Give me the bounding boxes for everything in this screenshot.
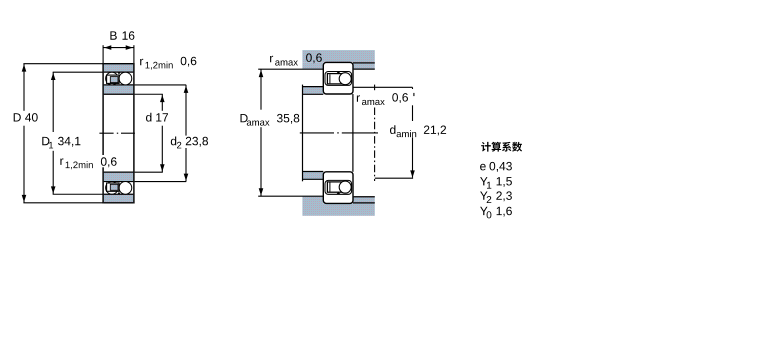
- dimension line D lower part: [23, 126, 25, 203]
- ball upper (right figure): [339, 73, 351, 85]
- label B letter: [110, 31, 116, 39]
- label B value: [123, 31, 135, 40]
- shaft abutment collar lower (right figure): [303, 172, 324, 180]
- housing shoulder face upper right (right figure): [354, 68, 375, 70]
- label r top subscript: [146, 62, 173, 70]
- label r left subscript: [66, 161, 93, 169]
- white gap for ra mid label: [354, 91, 407, 105]
- shaft shoulder face line (right figure): [302, 85, 304, 182]
- shaft abutment collar upper (right figure): [303, 87, 324, 95]
- raceway notch lower (right figure): [337, 192, 341, 195]
- label d2 letter: [171, 137, 176, 146]
- bore surface line top (left figure): [104, 93, 134, 95]
- factor row e: [480, 162, 512, 172]
- header calculation factors (Chinese): [481, 142, 522, 152]
- axis center line dot (left figure): [117, 132, 118, 134]
- extension line B right: [133, 45, 135, 63]
- extension line d top: [135, 93, 163, 95]
- damin line hook top: [412, 87, 414, 89]
- factor row Y0: [480, 207, 512, 219]
- label d letter: [146, 113, 151, 122]
- cage upper (right figure): [327, 74, 343, 84]
- label damin value: [424, 126, 446, 136]
- extension line d bottom: [135, 171, 163, 173]
- housing shoulder face upper left and Da extension: [258, 68, 323, 70]
- inner ring raceway line lower (left figure): [104, 181, 134, 183]
- axis center line dot (right figure): [337, 132, 339, 134]
- bearing inner ring upper section (left figure): [104, 85, 134, 94]
- collar upper top line: [302, 86, 323, 88]
- damin line small dash: [413, 93, 415, 96]
- housing shoulder lower right (right figure): [353, 197, 375, 203]
- arrowhead d2 bottom: [184, 174, 189, 181]
- extension line D top: [23, 63, 103, 65]
- outer ring raceway line lower (left figure): [104, 193, 134, 195]
- bearing right face line (left figure): [133, 63, 135, 204]
- extension line B left: [102, 45, 104, 63]
- arrowhead D bottom: [22, 195, 27, 202]
- bearing outer ring upper section (left figure): [104, 64, 134, 72]
- arrowhead d top: [160, 95, 165, 102]
- ball row boundary upper (right figure): [325, 72, 352, 86]
- cage upper (left figure): [107, 75, 120, 83]
- factor row Y2: [480, 191, 512, 203]
- label r left letter: [60, 158, 63, 165]
- bearing outer ring lower section (left figure): [104, 194, 134, 203]
- bearing outside surface top (left figure): [104, 63, 134, 65]
- label r top value: [181, 57, 197, 67]
- label D1 letter: [42, 137, 49, 145]
- raceway notch between balls lower (left figure): [118, 192, 121, 194]
- label ra mid letter: [357, 95, 360, 102]
- raceway notch between balls upper (left figure): [118, 72, 121, 74]
- label ra mid value: [392, 93, 408, 103]
- bearing upper half outline (right figure): [323, 62, 353, 94]
- housing bore line lower right (right figure): [353, 202, 375, 204]
- ball left lower row (left figure): [106, 182, 119, 195]
- white gap for d label: [144, 111, 169, 123]
- cage inner line lower (right figure): [329, 183, 331, 192]
- arrowhead B right: [126, 45, 133, 50]
- cage inner line upper (right figure): [329, 74, 331, 83]
- dimension line Damax upper part: [260, 69, 262, 110]
- bearing right face line middle (right figure): [352, 94, 354, 172]
- dimension line B: [103, 47, 134, 49]
- shaft face line (right figure): [374, 108, 376, 182]
- bearing lower half outline (right figure): [323, 172, 353, 204]
- arrowhead D1 bottom: [51, 186, 56, 193]
- label Damax subscript: [247, 121, 270, 126]
- housing bore line upper right (right figure): [353, 62, 375, 64]
- arrowhead d bottom: [160, 164, 165, 171]
- axis center line dash 1 (right figure): [300, 132, 334, 134]
- dimension line d lower part: [161, 126, 163, 172]
- arrowhead D1 top: [51, 73, 56, 80]
- label D1 subscript: [49, 142, 53, 149]
- cage lower (left figure): [107, 183, 120, 191]
- label r left value 0,6: [101, 157, 117, 167]
- housing shoulder upper left (right figure): [302, 62, 323, 69]
- bore surface line bottom (left figure): [104, 171, 134, 173]
- housing shoulder upper right (right figure): [353, 63, 375, 69]
- dimension line D1 lower part: [52, 151, 54, 194]
- label ra top letter: [270, 56, 273, 63]
- extension line d2 top: [135, 84, 187, 86]
- ball right upper row (left figure): [119, 72, 132, 85]
- extension line D1 top: [53, 71, 103, 73]
- label damin subscript: [397, 130, 417, 137]
- label D1 value: [58, 137, 80, 147]
- label d2 subscript: [177, 142, 181, 149]
- dimension line damin upper part: [412, 105, 414, 121]
- dimension line d upper part: [161, 94, 163, 111]
- label ra top subscript: [275, 60, 298, 65]
- raceway notch upper (right figure): [337, 72, 341, 75]
- white gap for d2 value: [184, 136, 209, 148]
- ball lower (right figure): [339, 181, 351, 193]
- extension line d2 bottom: [135, 181, 187, 183]
- housing section above bearing (right figure): [302, 50, 374, 62]
- bearing left face line (left figure): [102, 63, 104, 204]
- bearing inner ring lower section (left figure): [104, 172, 134, 181]
- cage pocket upper (left figure): [110, 77, 118, 83]
- dimension line d2 lower part: [185, 148, 187, 182]
- label ra mid subscript: [362, 100, 385, 105]
- dimension line D upper part: [23, 64, 25, 111]
- white gap for r left value: [99, 155, 116, 167]
- axis center line dash 1 (left figure): [99, 132, 113, 134]
- ball row boundary lower (right figure): [325, 180, 352, 194]
- dimension line D1 upper part: [52, 72, 54, 132]
- label d2 value: [186, 137, 208, 147]
- bearing top edge segment left (left figure): [102, 63, 103, 65]
- arrowhead Damax top: [259, 70, 264, 77]
- label ra top value: [306, 53, 322, 63]
- outer ring raceway line upper (left figure): [104, 71, 134, 73]
- shaft face tick top (right figure): [374, 85, 376, 91]
- ball right lower row (left figure): [119, 182, 132, 195]
- bearing outside surface bottom (left figure): [104, 202, 134, 204]
- extension line damin top / ra leader: [354, 86, 413, 88]
- dimension line damin lower part: [412, 137, 414, 177]
- dimension line d2 upper part: [185, 85, 187, 136]
- housing section below bearing (right figure): [302, 204, 374, 216]
- ball left upper row (left figure): [106, 72, 119, 85]
- label Damax value: [277, 114, 299, 124]
- extension line damin bottom: [375, 177, 413, 179]
- arrowhead Damax bottom: [259, 188, 264, 195]
- extension line D bottom: [23, 202, 103, 204]
- arrowhead D top: [22, 64, 27, 71]
- collar lower bottom line: [302, 178, 323, 180]
- housing shoulder face lower right (right figure): [354, 196, 375, 198]
- housing shoulder lower left (right figure): [302, 196, 323, 203]
- factor row Y1: [480, 177, 512, 189]
- label D letter: [14, 113, 21, 121]
- axis center line dash 2 (left figure): [121, 132, 135, 134]
- arrowhead B left: [104, 45, 111, 50]
- label Damax letter: [241, 114, 248, 122]
- label d value: [156, 113, 168, 121]
- inner ring raceway line upper (left figure): [104, 84, 134, 86]
- collar upper bottom line: [302, 93, 323, 95]
- label r top letter: [140, 59, 143, 66]
- collar lower top line: [302, 171, 323, 173]
- arrowhead damin bottom: [410, 170, 415, 177]
- label D value: [25, 113, 38, 122]
- dimension line Damax lower part: [260, 127, 262, 196]
- label damin letter: [390, 125, 395, 134]
- cage pocket lower (left figure): [110, 184, 118, 190]
- extension line D1 bottom: [53, 193, 103, 195]
- housing shoulder face lower left and Da extension: [258, 195, 323, 197]
- cage lower (right figure): [327, 182, 343, 192]
- axis center line dash 2 (right figure): [342, 132, 378, 134]
- arrowhead d2 top: [184, 86, 189, 93]
